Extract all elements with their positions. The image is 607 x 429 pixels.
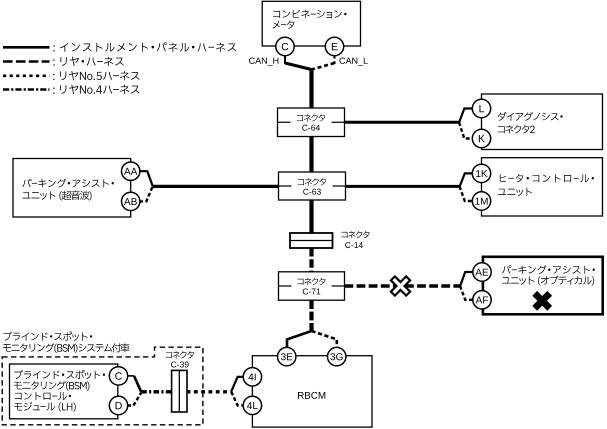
legend label: instrument panel harness [53,42,236,52]
wire parking assist (ultrasonic) to C-63 run [152,185,279,188]
legend label: rear No.5 harness [53,71,139,80]
diagnosis connector 2 box [482,94,603,150]
wire stub from pin C of BSM module [127,376,141,392]
pin L [472,99,490,117]
label CAN_H [249,58,255,64]
wire dashed stub from pin AB [139,187,152,201]
connector C-71 [279,272,345,300]
combination meter box [262,1,360,46]
wire C-63 to heater control unit run [346,185,460,188]
wire dashed stub junction to pin 3G [312,331,337,348]
legend sample: rear harness (dashed) [3,60,50,63]
wire stub to pin 1K [460,173,473,187]
pin 3G [328,347,346,365]
wire CAN_H stub from pin C [285,55,312,69]
pin AF [473,291,491,309]
connector C-39 symbol [166,351,194,412]
pin 4I [243,368,261,386]
RBCM box [252,356,372,427]
legend sample: instrument panel harness (solid) [3,46,50,49]
wire stub to pin AE [460,272,473,287]
pin AB [122,192,140,210]
wire main CAN bus (instrument panel harness) from junction to connector C-14 [309,69,313,234]
wire stub junction to pin 3E [287,331,312,348]
BSM system dashed enclosure [2,347,203,425]
wire dashed stub to pin 4L [231,392,244,406]
BSM control module (LH) box [10,364,118,419]
wire dashed stub to pin 1M [460,186,473,201]
wire dashed stub to pin AF [460,286,473,300]
pin C of combination meter [276,37,294,55]
pin C of BSM module [109,367,127,385]
crossed-out mark inside optical unit [527,286,557,316]
wire dashed stub to pin K [459,122,473,138]
legend sample: rear No.5 harness (dotted) [3,75,50,78]
label CAN_L [339,58,345,64]
wire CAN_L stub from pin E (rear harness dashed) [312,55,335,69]
wire dash-dot (rear No.4 harness) BSM junction to connector C-39 [141,390,172,393]
pin 4L [243,396,261,414]
wire main CAN bus dashed (rear harness) C-14 to C-71 [309,248,313,272]
pin 3E [278,347,296,365]
wire stub from pin AA [139,171,153,186]
connector C-64 [278,108,345,137]
legend label: rear No.4 harness [53,85,139,94]
wire dashed (rear harness) C-71 to parking assist optical [345,284,461,287]
pin AE [473,263,491,281]
wire dashed stub from pin D of BSM module [127,393,141,406]
connector C-63 [279,172,346,200]
heater control unit box [482,158,603,216]
label: BSM system equipped vehicles [3,332,130,353]
legend sample: rear No.4 harness (dash-dot) [3,88,50,91]
pin 1K [472,164,490,182]
pin 1M [472,192,490,210]
connector C-14 symbol [290,231,370,248]
wire dotted (rear No.5 harness) C-39 to RBCM junction [187,390,232,393]
wire main CAN bus dashed (rear harness) C-71 to RBCM junction [309,300,313,332]
wire C-64 to diagnosis connector run [345,121,460,124]
disconnect X symbol on optical wire [385,271,416,302]
wire stub to pin L [459,109,473,123]
parking assist unit (ultrasonic) box [13,159,131,218]
parking assist unit (optical) box, crossed out [483,257,603,315]
pin E of combination meter [325,37,343,55]
wire stub to pin 4I [231,377,244,392]
pin D of BSM module [109,396,127,414]
pin AA [122,162,140,180]
pin K [472,129,490,147]
legend label: rear harness [53,57,124,66]
